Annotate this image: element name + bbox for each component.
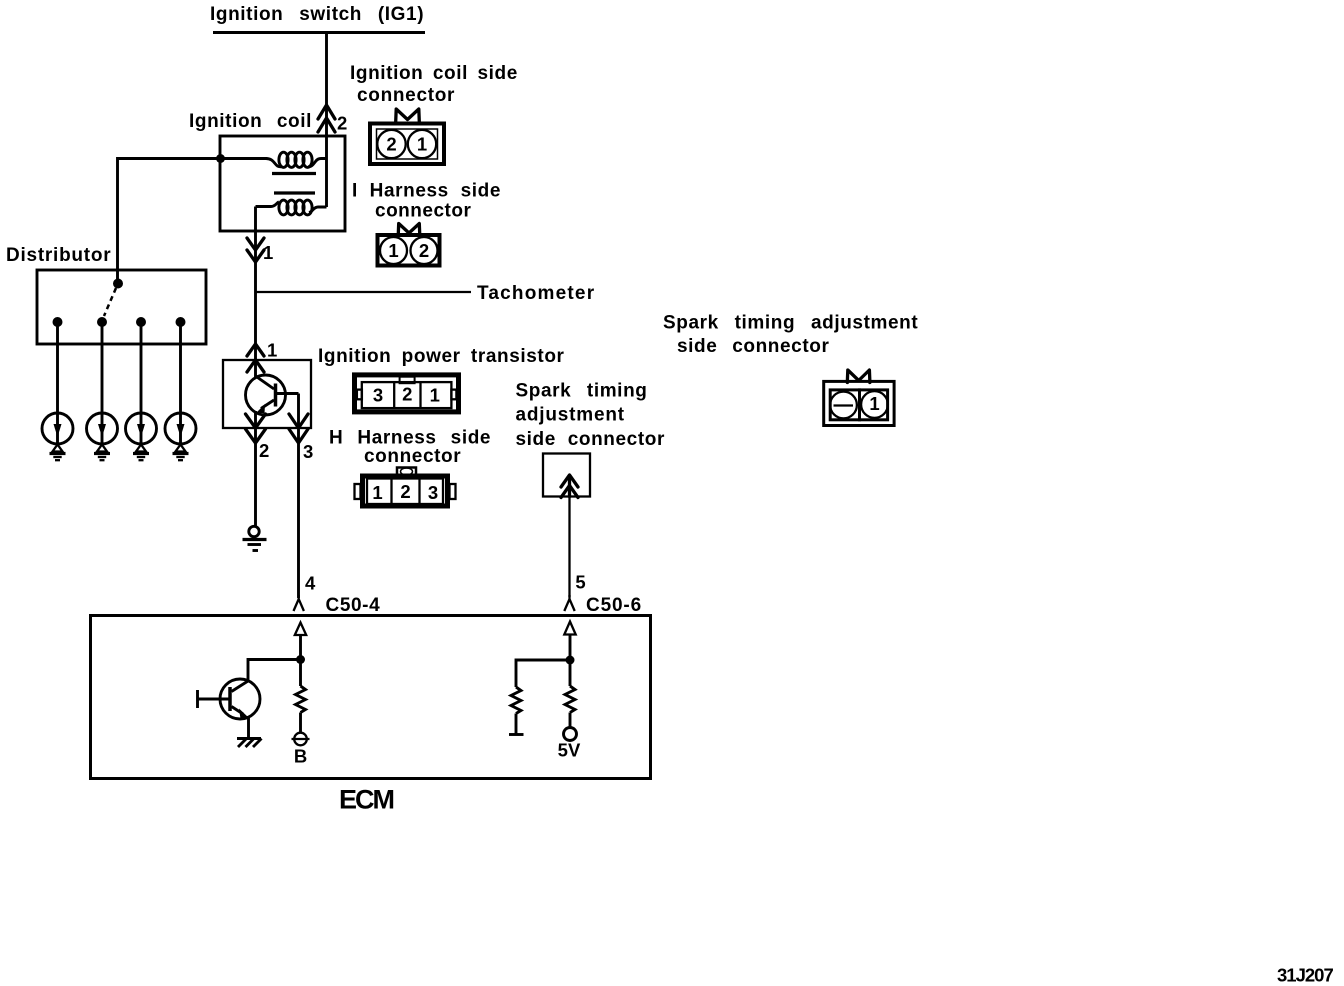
svg-text:5: 5 (575, 572, 585, 593)
coil secondary winding (top) (224, 152, 327, 167)
node junction dot (566, 656, 575, 665)
connector A keying mark (396, 109, 420, 122)
connector D side lugs (355, 484, 456, 499)
svg-text:side connector: side connector (677, 336, 829, 357)
transistor Q1 collector (256, 376, 275, 389)
svg-text:5V: 5V (558, 740, 581, 761)
wire pin 3 down to ECM (297, 394, 300, 599)
svg-text:I Harness side: I Harness side (352, 181, 501, 202)
ECM terminal C50-6 symbol (564, 595, 574, 611)
spark plug 4 (165, 413, 196, 460)
svg-text:Ignition power transistor: Ignition power transistor (318, 346, 565, 367)
connector E blank terminal (830, 392, 857, 419)
connector C inner frame (357, 382, 457, 408)
transistor Q2 circle (220, 679, 260, 719)
coil primary winding (bottom) (256, 200, 327, 215)
ECM terminal C50-4 symbol (294, 595, 304, 611)
svg-text:adjustment: adjustment (516, 405, 625, 426)
transistor Q2 emitter (232, 707, 249, 720)
svg-text:side connector: side connector (516, 429, 665, 450)
distributor contact dots (53, 317, 186, 327)
terminal B symbol (292, 733, 310, 746)
resistor R1 (296, 660, 306, 733)
svg-text:2: 2 (386, 134, 396, 155)
spark plug 1 (42, 413, 73, 460)
connector D inner frame (367, 479, 443, 505)
svg-text:3: 3 (428, 482, 438, 503)
wire pin 5 to ECM (568, 497, 570, 598)
arrow pin 2 (down) (246, 414, 266, 443)
svg-text:connector: connector (364, 446, 461, 467)
wire triangle to node (299, 635, 302, 660)
connector E keying mark (847, 370, 870, 383)
node junction dot coil-to-distributor (216, 154, 225, 163)
transistor Q2 base bar (228, 687, 232, 711)
wire coil to distributor (118, 159, 221, 284)
ignition switch bus line (213, 31, 425, 34)
wire coil pin1 down to power transistor (254, 207, 257, 378)
arrow pin 3 (down) (289, 414, 308, 443)
wire pin 2 to ground (254, 411, 257, 527)
wire node to pull resistor (516, 660, 570, 687)
svg-text:3: 3 (303, 441, 313, 462)
svg-text:2: 2 (402, 384, 412, 405)
connector B (harness side) body (378, 235, 440, 266)
transistor Q1 emitter (257, 400, 275, 414)
terminal 5V symbol (564, 728, 577, 741)
connector E (spark timing adjustment side) body (824, 381, 894, 425)
chassis ground hatch (237, 739, 262, 748)
connector A (ignition coil side) body (370, 124, 444, 165)
svg-text:1: 1 (263, 242, 273, 263)
spark timing adjustment connector box (543, 454, 590, 497)
spark plug 3 (126, 413, 157, 460)
svg-text:1: 1 (372, 482, 382, 503)
svg-text:connector: connector (357, 85, 455, 106)
connector C top tab (400, 377, 415, 384)
ECM box (91, 616, 651, 779)
wire IG1 from switch to ignition coil (325, 33, 328, 207)
transistor Q2 base lead (198, 690, 231, 708)
connector B keying mark (398, 224, 420, 237)
wire to tachometer (256, 291, 472, 293)
node junction dot (296, 655, 305, 664)
connector E terminal 1 (861, 391, 888, 418)
spark plug 2 (87, 413, 118, 460)
transistor Q1 base bar (274, 384, 278, 407)
connector A terminal 1 (408, 130, 436, 158)
svg-text:1: 1 (430, 385, 440, 406)
connector B terminal 1 (380, 237, 407, 264)
arrow pin 2 (up) on IG1 wire (318, 105, 335, 132)
wire emitter to chassis ground (247, 716, 250, 739)
svg-text:2: 2 (259, 440, 269, 461)
connector D top tab (397, 468, 416, 476)
ground symbol for pin 2 (243, 526, 267, 550)
svg-text:Ignition coil side: Ignition coil side (350, 63, 518, 84)
connector C (ignition power transistor) body (355, 375, 459, 412)
coil core lines (272, 172, 316, 175)
svg-text:connector: connector (375, 201, 471, 222)
svg-text:1: 1 (388, 240, 398, 261)
svg-text:1: 1 (869, 393, 879, 414)
resistor R2 (509, 687, 524, 735)
svg-text:Spark timing adjustment: Spark timing adjustment (663, 313, 918, 334)
transistor Q1 base lead (276, 392, 299, 395)
connector D (H harness side) body (363, 476, 448, 506)
distributor box (37, 270, 206, 344)
ECM input triangle C50-6 (564, 622, 575, 635)
spark plug wires (58, 322, 181, 446)
svg-text:31J207: 31J207 (1277, 965, 1333, 986)
wire triangle to node (569, 635, 572, 661)
connector A terminal 2 (377, 130, 405, 158)
resistor R3 (565, 660, 575, 728)
transistor Q1 circle (246, 375, 286, 415)
svg-text:C50-4: C50-4 (326, 595, 381, 616)
svg-text:1: 1 (267, 340, 277, 361)
svg-text:4: 4 (305, 573, 316, 594)
svg-text:Distributor: Distributor (6, 245, 111, 266)
svg-text:3: 3 (373, 385, 383, 406)
arrow inside spark timing box (up) (561, 475, 578, 498)
svg-text:2: 2 (400, 481, 410, 502)
arrow pin 1 (up) above power transistor (247, 344, 264, 372)
connector B terminal 2 (411, 237, 438, 264)
svg-text:2: 2 (337, 113, 347, 134)
svg-text:1: 1 (417, 134, 427, 155)
svg-text:B: B (294, 746, 307, 767)
power transistor box (223, 360, 311, 428)
arrow pin 1 (down) below coil (247, 238, 264, 262)
ignition coil box (220, 136, 345, 231)
distributor rotor dot (113, 279, 123, 289)
svg-text:Ignition coil: Ignition coil (189, 111, 312, 132)
svg-text:2: 2 (419, 240, 429, 261)
svg-text:Ignition switch (IG1): Ignition switch (IG1) (210, 4, 424, 25)
transistor Q2 collector (232, 681, 249, 692)
ECM input triangle C50-4 (295, 623, 306, 636)
svg-text:ECM: ECM (339, 785, 394, 815)
svg-text:Spark timing: Spark timing (516, 381, 648, 402)
svg-text:C50-6: C50-6 (586, 595, 642, 616)
wire node to transistor collector (248, 660, 301, 682)
distributor rotor dashed contact (104, 288, 116, 316)
svg-text:Tachometer: Tachometer (477, 283, 595, 304)
